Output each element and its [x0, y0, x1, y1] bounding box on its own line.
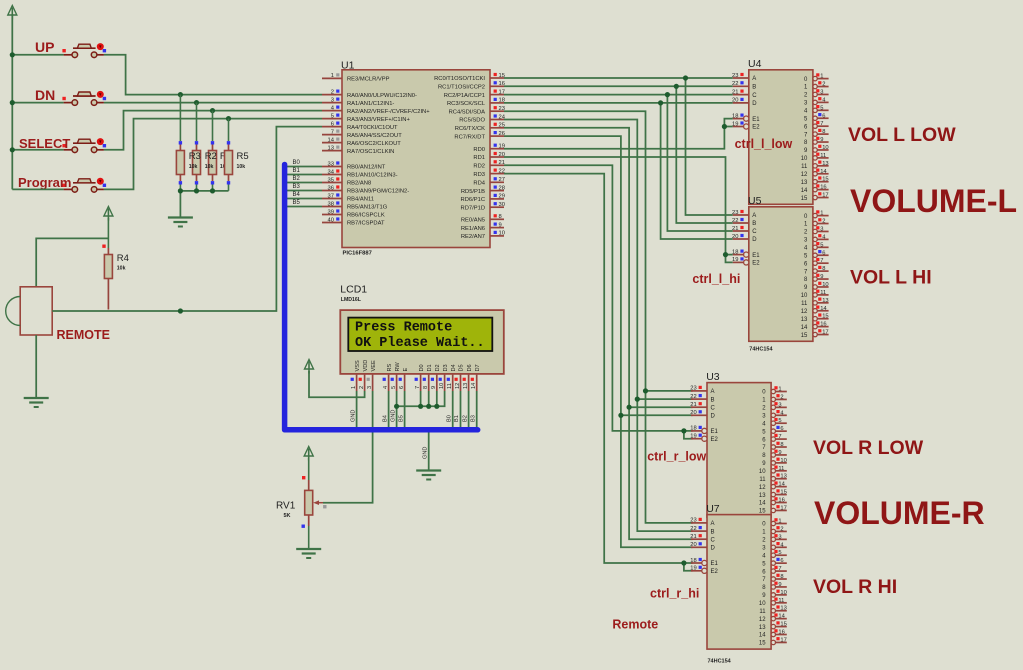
svg-text:8: 8 [780, 574, 783, 580]
U5 output 14 pin 16 [801, 321, 829, 331]
resistor R4 [102, 218, 112, 310]
wire RD3 to U7 enables [504, 174, 693, 563]
pin 14 RA6/OSC2/CLKOUT [322, 137, 401, 146]
svg-text:VSS: VSS [355, 360, 361, 371]
svg-text:34: 34 [328, 169, 335, 175]
svg-text:3: 3 [367, 386, 373, 389]
svg-text:19: 19 [690, 566, 696, 572]
svg-text:B5: B5 [398, 415, 404, 422]
wire Program to RA3 [12, 188, 63, 190]
node RC2 tap [665, 92, 670, 97]
svg-text:R3: R3 [189, 151, 201, 162]
pin 35 RB2/AN8 [322, 177, 371, 186]
svg-text:RA2/AN2/VREF-/CVREF/C2IN+: RA2/AN2/VREF-/CVREF/C2IN+ [347, 109, 430, 115]
pin 30 RD7/P1D [461, 202, 505, 211]
U7 output 13 pin 15 [759, 621, 787, 630]
U3 pin 23 A [690, 386, 714, 395]
pin 3 RA1/AN1/C12IN1- [322, 97, 394, 106]
U7 output 5 pin 6 [762, 558, 787, 568]
svg-text:16: 16 [778, 630, 784, 636]
svg-text:10: 10 [780, 590, 786, 596]
svg-text:5: 5 [820, 105, 823, 111]
U4 output 9 pin 10 [804, 145, 829, 154]
svg-text:A: A [752, 76, 756, 82]
svg-text:36: 36 [328, 185, 334, 191]
pin 19 RD0 [473, 144, 505, 153]
svg-text:E: E [403, 368, 409, 372]
svg-text:2: 2 [780, 526, 783, 532]
wire LCD VSS to bus (GND) [356, 391, 358, 427]
svg-text:U4: U4 [748, 58, 762, 70]
svg-text:19: 19 [690, 434, 696, 440]
U3 output 3 pin 4 [762, 410, 787, 419]
svg-text:1: 1 [820, 74, 823, 80]
pin 36 RB3/AN9/PGM/C12IN2- [322, 185, 409, 194]
U7 output 9 pin 10 [762, 590, 787, 599]
pin 40 RB7/ICSPDAT [322, 217, 385, 226]
pin 1 RE3/MCLR/VPP [322, 73, 390, 82]
svg-text:14: 14 [778, 614, 785, 620]
LCD pin 4 RS [383, 363, 393, 391]
svg-text:VOL R HI: VOL R HI [813, 576, 897, 598]
svg-text:29: 29 [499, 194, 505, 200]
wire VCC rail to REMOTE [36, 238, 108, 286]
pin 25 RC6/TX/CK [455, 123, 505, 132]
svg-text:10k: 10k [189, 164, 198, 170]
svg-text:B0: B0 [446, 415, 452, 422]
svg-text:14: 14 [820, 169, 827, 175]
node R1 top [210, 108, 215, 113]
svg-text:R5: R5 [237, 151, 249, 162]
resistor R1 [209, 111, 217, 191]
pin 38 RB5/AN13/T1G [322, 201, 388, 210]
pin 28 RD5/P1B [461, 185, 505, 194]
U7 output 10 pin 11 [759, 598, 787, 608]
svg-text:22: 22 [690, 394, 696, 400]
U4 output 12 pin 14 [801, 169, 829, 178]
LCD pin 11 D4 [447, 364, 457, 391]
svg-text:RA4/T0CKI/C1OUT: RA4/T0CKI/C1OUT [347, 125, 398, 131]
svg-text:5: 5 [820, 242, 823, 248]
svg-text:12: 12 [455, 383, 461, 389]
svg-text:LMD16L: LMD16L [341, 297, 362, 303]
svg-text:D: D [711, 546, 716, 552]
svg-text:RA5/AN4/SS/C2OUT: RA5/AN4/SS/C2OUT [347, 133, 402, 139]
svg-text:6: 6 [780, 426, 783, 432]
U7 pin 20 D [690, 542, 715, 551]
svg-text:E2: E2 [752, 261, 760, 267]
svg-text:10k: 10k [237, 164, 246, 170]
U5 output 0 pin 1 [804, 210, 829, 220]
wire LCD B3 to bus [476, 391, 478, 427]
wire RC7 to U3/U7 input [504, 136, 693, 547]
svg-text:C: C [711, 405, 716, 411]
U4 pin 21 C [732, 89, 757, 98]
svg-text:RD4: RD4 [473, 181, 485, 187]
U5 output 8 pin 9 [804, 274, 829, 284]
svg-text:15: 15 [801, 196, 808, 202]
svg-text:8: 8 [822, 266, 825, 272]
svg-text:6: 6 [399, 386, 405, 389]
svg-text:10: 10 [801, 293, 808, 299]
svg-text:A: A [752, 213, 756, 219]
svg-text:RW: RW [395, 362, 401, 372]
svg-text:LCD1: LCD1 [340, 284, 367, 296]
svg-text:RE3/MCLR/VPP: RE3/MCLR/VPP [347, 77, 390, 83]
svg-text:1: 1 [351, 386, 357, 389]
svg-text:D6: D6 [467, 364, 473, 371]
svg-text:17: 17 [499, 89, 505, 95]
svg-text:D3: D3 [443, 364, 449, 371]
U5 output 1 pin 2 [804, 218, 829, 228]
svg-text:33: 33 [328, 161, 334, 167]
svg-text:6: 6 [822, 250, 825, 256]
svg-text:B1: B1 [454, 415, 460, 422]
LCD pin 9 D2 [431, 364, 441, 391]
svg-text:19: 19 [499, 144, 505, 150]
LCD pin 1 VSS [351, 360, 361, 391]
U3 pin 22 B [690, 394, 714, 403]
svg-text:4: 4 [383, 386, 389, 389]
svg-text:13: 13 [822, 298, 828, 304]
svg-text:9: 9 [820, 137, 823, 143]
pin 33 RB0/AN12/INT [322, 161, 386, 170]
svg-text:39: 39 [328, 209, 334, 215]
svg-text:RB0/AN12/INT: RB0/AN12/INT [347, 165, 386, 171]
svg-text:15: 15 [759, 509, 766, 515]
push button Program [62, 178, 106, 193]
wire REMOTE output to RA4 [52, 127, 322, 311]
push button DN [62, 91, 106, 105]
svg-text:10: 10 [801, 156, 808, 162]
wire LCD RS to bus (B4) [388, 391, 390, 427]
U3 output 4 pin 5 [762, 418, 787, 428]
svg-text:21: 21 [732, 89, 738, 95]
LCD pin 10 D3 [439, 364, 449, 391]
svg-text:RC0/T1OSO/T1CKI: RC0/T1OSO/T1CKI [434, 76, 485, 82]
U5 pin 21 C [732, 226, 757, 235]
decoder U5 74HC154 [749, 207, 813, 341]
wire LCD E to bus (B5) [404, 391, 406, 427]
svg-text:3: 3 [331, 97, 334, 103]
svg-text:20: 20 [499, 152, 505, 158]
svg-text:10: 10 [759, 469, 766, 475]
svg-text:22: 22 [732, 81, 738, 87]
node RC4 tap [643, 388, 648, 393]
pin 26 RC7/RX/DT [454, 131, 505, 140]
svg-text:10k: 10k [117, 266, 126, 272]
svg-text:RB7/ICSPDAT: RB7/ICSPDAT [347, 221, 385, 227]
svg-text:5: 5 [331, 113, 334, 119]
svg-text:3: 3 [778, 402, 781, 408]
U7 output 15 pin 17 [759, 637, 787, 647]
ground under REMOTE [24, 398, 49, 407]
svg-text:U5: U5 [748, 195, 762, 207]
svg-text:U7: U7 [706, 503, 720, 515]
power symbol above RV1 [304, 447, 313, 461]
svg-text:14: 14 [471, 383, 477, 389]
svg-text:E1: E1 [752, 253, 760, 259]
svg-text:12: 12 [801, 309, 808, 315]
U3 output 15 pin 17 [759, 505, 787, 515]
push button SELECT [62, 138, 106, 153]
svg-text:6: 6 [331, 121, 334, 127]
svg-text:6: 6 [822, 113, 825, 119]
node U5 E1 [723, 252, 728, 257]
svg-text:21: 21 [499, 160, 505, 166]
svg-text:D2: D2 [435, 364, 441, 371]
wire LCD VDD to VCC [309, 371, 365, 397]
svg-text:22: 22 [732, 218, 738, 224]
node RC6 tap [627, 405, 632, 410]
wire B1 bus to RB1 [287, 174, 322, 176]
svg-text:5: 5 [391, 386, 397, 389]
svg-text:14: 14 [778, 482, 785, 488]
svg-text:1: 1 [331, 73, 334, 79]
U7 pin 19 E2 [690, 566, 718, 575]
U5 output 4 pin 5 [804, 242, 829, 252]
svg-text:2: 2 [359, 386, 365, 389]
push button UP [62, 43, 106, 58]
svg-text:15: 15 [780, 622, 786, 628]
svg-text:VEE: VEE [371, 360, 377, 371]
U4 pin 18 E1 [732, 113, 760, 122]
svg-text:10: 10 [759, 601, 766, 607]
svg-text:VOL L HI: VOL L HI [850, 267, 932, 289]
U3 output 6 pin 7 [762, 434, 787, 443]
svg-text:14: 14 [820, 306, 827, 312]
svg-text:23: 23 [499, 106, 505, 112]
svg-text:14: 14 [801, 325, 808, 331]
LCD pin 2 VDD [359, 360, 369, 391]
U3 output 13 pin 15 [759, 489, 787, 498]
svg-text:D5: D5 [459, 364, 465, 371]
svg-text:B5: B5 [293, 200, 301, 206]
node RC0 tap [683, 75, 688, 80]
svg-text:Program: Program [18, 175, 71, 190]
node R3 top [178, 92, 183, 97]
svg-text:RB3/AN9/PGM/C12IN2-: RB3/AN9/PGM/C12IN2- [347, 189, 409, 195]
U3 pin 20 D [690, 410, 715, 419]
U7 output 12 pin 14 [759, 613, 787, 622]
LCD pin 13 D6 [463, 364, 473, 391]
svg-text:15: 15 [822, 314, 828, 320]
svg-text:74HC154: 74HC154 [749, 347, 773, 353]
U4 output 13 pin 15 [801, 176, 829, 185]
node DN rail [10, 100, 15, 105]
svg-text:21: 21 [690, 534, 696, 540]
U5 pin 22 B [732, 218, 756, 227]
svg-text:11: 11 [447, 383, 453, 389]
svg-text:20: 20 [690, 410, 696, 416]
svg-text:RA3/AN3/VREF+/C1IN+: RA3/AN3/VREF+/C1IN+ [347, 117, 410, 123]
pin 7 RA5/AN4/SS/C2OUT [322, 129, 402, 138]
U7 output 2 pin 3 [762, 534, 787, 543]
U4 pin 23 A [732, 73, 756, 82]
pin 21 RD2 [473, 160, 505, 169]
decoder U3 74HC154 [707, 383, 771, 517]
svg-text:15: 15 [801, 333, 808, 339]
svg-text:B4: B4 [382, 415, 388, 422]
svg-text:B: B [711, 397, 715, 403]
svg-text:12: 12 [801, 172, 808, 178]
svg-text:GND: GND [390, 410, 396, 422]
svg-text:16: 16 [820, 185, 826, 191]
svg-text:Press Remote: Press Remote [355, 320, 452, 335]
svg-text:13: 13 [328, 145, 334, 151]
svg-text:RC5/SDO: RC5/SDO [459, 118, 485, 124]
U7 output 3 pin 4 [762, 542, 787, 551]
U7 output 0 pin 1 [762, 518, 787, 528]
svg-text:15: 15 [759, 641, 766, 647]
pin 6 RA4/T0CKI/C1OUT [322, 121, 398, 130]
node R1 bottom [210, 188, 215, 193]
svg-text:RA1/AN1/C12IN1-: RA1/AN1/C12IN1- [347, 101, 394, 107]
svg-text:RD2: RD2 [473, 164, 485, 170]
svg-text:8: 8 [423, 386, 429, 389]
node D0 [418, 404, 423, 409]
svg-text:RC1/T1OSI/CCP2: RC1/T1OSI/CCP2 [438, 85, 485, 91]
pin 18 RC3/SCK/SCL [447, 98, 505, 107]
node D2 [434, 404, 439, 409]
node RW tie [394, 404, 399, 409]
svg-text:B3: B3 [470, 415, 476, 422]
pin 8 RE0/AN5 [461, 214, 504, 223]
wire B2 bus to RB2 [287, 182, 322, 184]
U5 output 9 pin 10 [804, 282, 829, 291]
pin 5 RA3/AN3/VREF+/C1IN+ [322, 113, 410, 122]
svg-text:D7: D7 [475, 364, 481, 371]
U4 output 15 pin 17 [801, 192, 829, 202]
svg-text:3: 3 [778, 534, 781, 540]
svg-text:ctrl_l_hi: ctrl_l_hi [692, 272, 740, 286]
svg-text:RC3/SCK/SCL: RC3/SCK/SCL [447, 101, 486, 107]
svg-text:VOL R LOW: VOL R LOW [813, 437, 924, 459]
U4 output 5 pin 6 [804, 113, 829, 122]
svg-text:D: D [752, 101, 757, 107]
svg-text:11: 11 [801, 164, 808, 170]
wire RC3 to U4/U5 input [504, 102, 733, 104]
decoder U7 74HC154 [707, 515, 771, 650]
resistor R5 [225, 119, 233, 191]
svg-text:RC4/SDI/SDA: RC4/SDI/SDA [449, 109, 486, 115]
LCD pin 12 D5 [455, 364, 465, 391]
svg-text:RA6/OSC2/CLKOUT: RA6/OSC2/CLKOUT [347, 141, 401, 147]
svg-text:13: 13 [759, 493, 766, 499]
U5 output 7 pin 8 [804, 266, 829, 276]
svg-text:26: 26 [499, 131, 505, 137]
svg-text:18: 18 [690, 426, 696, 432]
svg-text:16: 16 [778, 498, 784, 504]
svg-text:RC2/P1A/CCP1: RC2/P1A/CCP1 [444, 93, 485, 99]
svg-text:74HC154: 74HC154 [708, 659, 732, 665]
wire LCD B1 to bus [460, 391, 462, 427]
U4 pin 19 E2 [732, 121, 760, 130]
wire DN to RA1 [12, 102, 63, 104]
svg-text:A: A [711, 389, 715, 395]
svg-text:VOLUME-R: VOLUME-R [814, 495, 985, 531]
svg-text:14: 14 [801, 188, 808, 194]
U3 pin 19 E2 [690, 434, 718, 443]
svg-text:RC6/TX/CK: RC6/TX/CK [455, 126, 485, 132]
LCD pin 6 E [399, 368, 409, 392]
U5 output 12 pin 14 [801, 306, 829, 315]
svg-text:6: 6 [780, 558, 783, 564]
U5 pin 20 D [732, 234, 757, 243]
U5 output 15 pin 17 [801, 329, 829, 339]
svg-text:RD3: RD3 [473, 172, 485, 178]
svg-text:13: 13 [801, 317, 808, 323]
svg-text:10: 10 [439, 383, 445, 389]
node RC3 tap [658, 100, 663, 105]
potentiometer RV1 [302, 458, 327, 549]
U5 output 10 pin 11 [801, 290, 829, 300]
svg-text:D: D [711, 414, 716, 420]
ground under resistors [168, 218, 193, 227]
svg-text:ctrl_r_low: ctrl_r_low [647, 450, 706, 464]
pin 27 RD4 [473, 177, 505, 186]
svg-text:20: 20 [732, 234, 738, 240]
svg-text:19: 19 [732, 121, 738, 127]
U3 output 8 pin 9 [762, 450, 787, 460]
wire RD2 to U3 enables [504, 165, 693, 431]
LCD pin 14 D7 [471, 364, 481, 391]
svg-text:VOLUME-L: VOLUME-L [850, 183, 1017, 219]
svg-text:ctrl_r_hi: ctrl_r_hi [650, 587, 699, 601]
svg-text:B2: B2 [293, 176, 301, 182]
U4 output 11 pin 13 [801, 161, 828, 171]
node R3 bottom [178, 188, 183, 193]
U3 output 11 pin 13 [759, 473, 786, 483]
U5 pin 18 E1 [732, 249, 760, 258]
svg-text:3: 3 [820, 226, 823, 232]
svg-text:9: 9 [820, 274, 823, 280]
svg-text:B: B [752, 221, 756, 227]
svg-text:11: 11 [778, 466, 784, 472]
U4 output 10 pin 11 [801, 153, 829, 163]
svg-text:UP: UP [35, 39, 54, 55]
node U7 E1 [681, 560, 686, 565]
power symbol VCC top-left [8, 6, 17, 20]
wire B0 bus to RB0 [287, 166, 322, 168]
svg-text:8: 8 [499, 214, 502, 220]
U3 output 10 pin 11 [759, 466, 787, 476]
svg-text:18: 18 [732, 249, 738, 255]
svg-text:OK Please Wait..: OK Please Wait.. [355, 336, 485, 351]
svg-text:B0: B0 [293, 160, 301, 166]
svg-text:RB2/AN8: RB2/AN8 [347, 181, 371, 187]
U3 output 2 pin 3 [762, 402, 787, 411]
svg-text:RB1/AN10/C12IN3-: RB1/AN10/C12IN3- [347, 173, 398, 179]
U4 output 2 pin 3 [804, 89, 829, 98]
svg-text:13: 13 [780, 606, 786, 612]
resistor R3 [176, 95, 184, 191]
svg-text:RB5/AN13/T1G: RB5/AN13/T1G [347, 205, 388, 211]
svg-text:Remote: Remote [612, 618, 658, 632]
svg-text:18: 18 [732, 113, 738, 119]
svg-text:VDD: VDD [363, 360, 369, 372]
svg-text:23: 23 [690, 518, 696, 524]
U4 output 7 pin 8 [804, 129, 829, 139]
svg-text:PIC16F887: PIC16F887 [343, 251, 372, 257]
svg-text:U3: U3 [706, 371, 720, 383]
svg-text:7: 7 [331, 129, 334, 135]
svg-text:VOL L LOW: VOL L LOW [848, 124, 956, 146]
svg-text:2: 2 [822, 82, 825, 88]
svg-text:RD0: RD0 [473, 147, 485, 153]
wire RC4 to U3/U7 input [504, 111, 693, 523]
svg-text:13: 13 [759, 625, 766, 631]
